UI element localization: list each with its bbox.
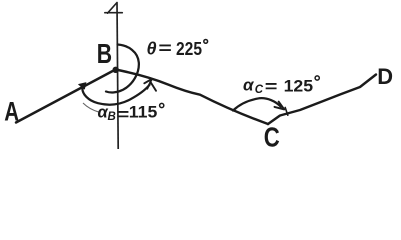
svg-text:=: = bbox=[265, 77, 278, 96]
angle arc theta at B (from axis, clockwise) bbox=[106, 45, 139, 93]
tick crossing line C-D near arrow bbox=[285, 108, 288, 116]
svg-text:=: = bbox=[117, 105, 129, 124]
vertex dot at B bbox=[113, 67, 119, 73]
faint secondary sketch arc below alpha_B arc bbox=[83, 103, 100, 112]
arrowhead right end of alpha_B arc bbox=[144, 79, 156, 91]
angle arc alpha_C at C bbox=[233, 98, 281, 110]
degree mark of alpha_B label bbox=[160, 103, 164, 107]
svg-text:=: = bbox=[158, 38, 171, 58]
arrowhead at end of alpha_C arc bbox=[275, 102, 285, 110]
arrowhead left end of alpha_B arc bbox=[79, 83, 86, 89]
svg-text:B: B bbox=[97, 38, 112, 69]
axis arrowhead (hand-drawn, looks like a 4) bbox=[105, 3, 123, 14]
svg-text:A: A bbox=[4, 97, 19, 127]
line segment A-B bbox=[16, 70, 116, 123]
degree mark of alpha_C label bbox=[315, 76, 319, 80]
line segment B-C bbox=[116, 70, 269, 125]
line segment C-D bbox=[268, 75, 376, 125]
svg-text:D: D bbox=[377, 64, 393, 89]
angle arc alpha_B at B (double-headed) bbox=[82, 85, 149, 105]
svg-text:C: C bbox=[264, 121, 280, 149]
vertical axis line bbox=[117, 3, 118, 150]
degree mark of theta label bbox=[204, 40, 208, 44]
